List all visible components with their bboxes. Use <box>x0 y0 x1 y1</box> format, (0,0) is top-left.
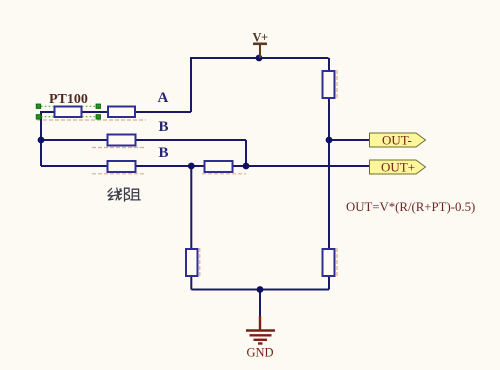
svg-text:OUT+: OUT+ <box>381 160 415 175</box>
svg-text:GND: GND <box>247 346 274 360</box>
svg-text:OUT-: OUT- <box>382 133 412 148</box>
svg-text:B: B <box>159 119 169 135</box>
svg-text:A: A <box>158 90 169 106</box>
svg-text:B: B <box>159 145 169 161</box>
svg-text:V+: V+ <box>253 30 269 44</box>
svg-text:PT100: PT100 <box>49 92 88 107</box>
svg-text:OUT=V*(R/(R+PT)-0.5): OUT=V*(R/(R+PT)-0.5) <box>346 200 475 214</box>
